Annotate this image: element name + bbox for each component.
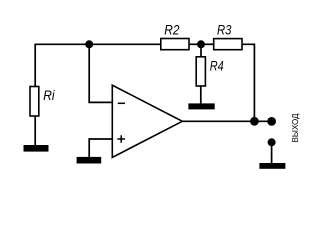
- svg-text:R3: R3: [217, 21, 232, 37]
- minus sign inverting input: [118, 102, 125, 104]
- wire node B to R3: [201, 43, 214, 45]
- output terminal bottom dot: [268, 138, 276, 146]
- wire R3 to output node: [242, 44, 254, 121]
- svg-text:R2: R2: [164, 22, 179, 38]
- resistor R4: [196, 57, 205, 86]
- wire bottom terminal to ground: [271, 142, 273, 163]
- op-amp U1: [112, 85, 182, 157]
- ground below output terminal: [259, 163, 285, 169]
- wire node A to inverting input: [89, 44, 112, 102]
- ground at non-inverting input: [77, 157, 102, 164]
- wire R4 to ground: [200, 86, 202, 103]
- svg-text:ВЫХОД: ВЫХОД: [290, 113, 300, 142]
- resistor R2: [161, 39, 189, 50]
- resistor R3: [214, 39, 242, 50]
- svg-text:R4: R4: [210, 58, 224, 74]
- wire Ri to ground: [34, 116, 36, 145]
- ground below R4: [188, 103, 214, 109]
- wire R2 to node B: [189, 43, 201, 45]
- wire op-amp output to terminal: [182, 120, 271, 122]
- wire node B down to R4: [200, 44, 202, 57]
- plus sign non-inverting input: [117, 135, 125, 143]
- wire non-inverting input to ground: [89, 139, 112, 157]
- ground below Ri: [24, 145, 49, 152]
- resistor Ri: [30, 87, 39, 117]
- node A junction dot: [85, 40, 93, 48]
- svg-text:Ri: Ri: [43, 87, 55, 103]
- output terminal top dot: [267, 117, 276, 126]
- node B junction dot: [197, 40, 205, 48]
- node C junction dot on output: [250, 117, 259, 126]
- wire from top-left corner to Ri and along top to R2: [35, 44, 161, 86]
